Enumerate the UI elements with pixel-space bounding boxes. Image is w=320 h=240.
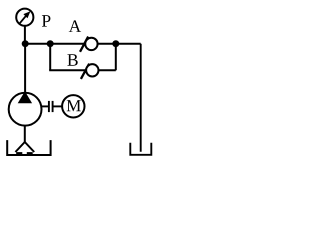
pressure gauge bbox=[16, 9, 33, 26]
check valve A bbox=[80, 37, 98, 52]
wire valve B riser up to junction bbox=[115, 43, 117, 71]
pump bbox=[9, 91, 42, 125]
label B bbox=[67, 54, 77, 66]
wire B branch down bbox=[49, 44, 51, 71]
wire B branch right to valve B bbox=[49, 69, 85, 71]
wire pump supply line bbox=[24, 44, 26, 94]
tank left bbox=[7, 140, 50, 155]
wire top line from junction to valve A bbox=[25, 43, 85, 45]
junction dot valve outputs bbox=[112, 40, 119, 47]
tank right bbox=[130, 143, 151, 155]
check valve B bbox=[81, 64, 99, 79]
wire valve A output to right corner bbox=[97, 43, 141, 45]
motor M bbox=[62, 95, 84, 117]
wire valve B output bbox=[98, 69, 116, 71]
wire gauge stem bbox=[24, 26, 26, 44]
junction dot branch B bbox=[47, 40, 54, 47]
label A bbox=[69, 20, 81, 32]
suction strainer bbox=[15, 142, 34, 153]
wire right drop to tank bbox=[140, 44, 142, 152]
label P bbox=[42, 15, 51, 26]
wire pump suction line bbox=[24, 125, 26, 143]
coupling shaft bbox=[41, 101, 62, 112]
junction dot at gauge bbox=[22, 40, 29, 47]
